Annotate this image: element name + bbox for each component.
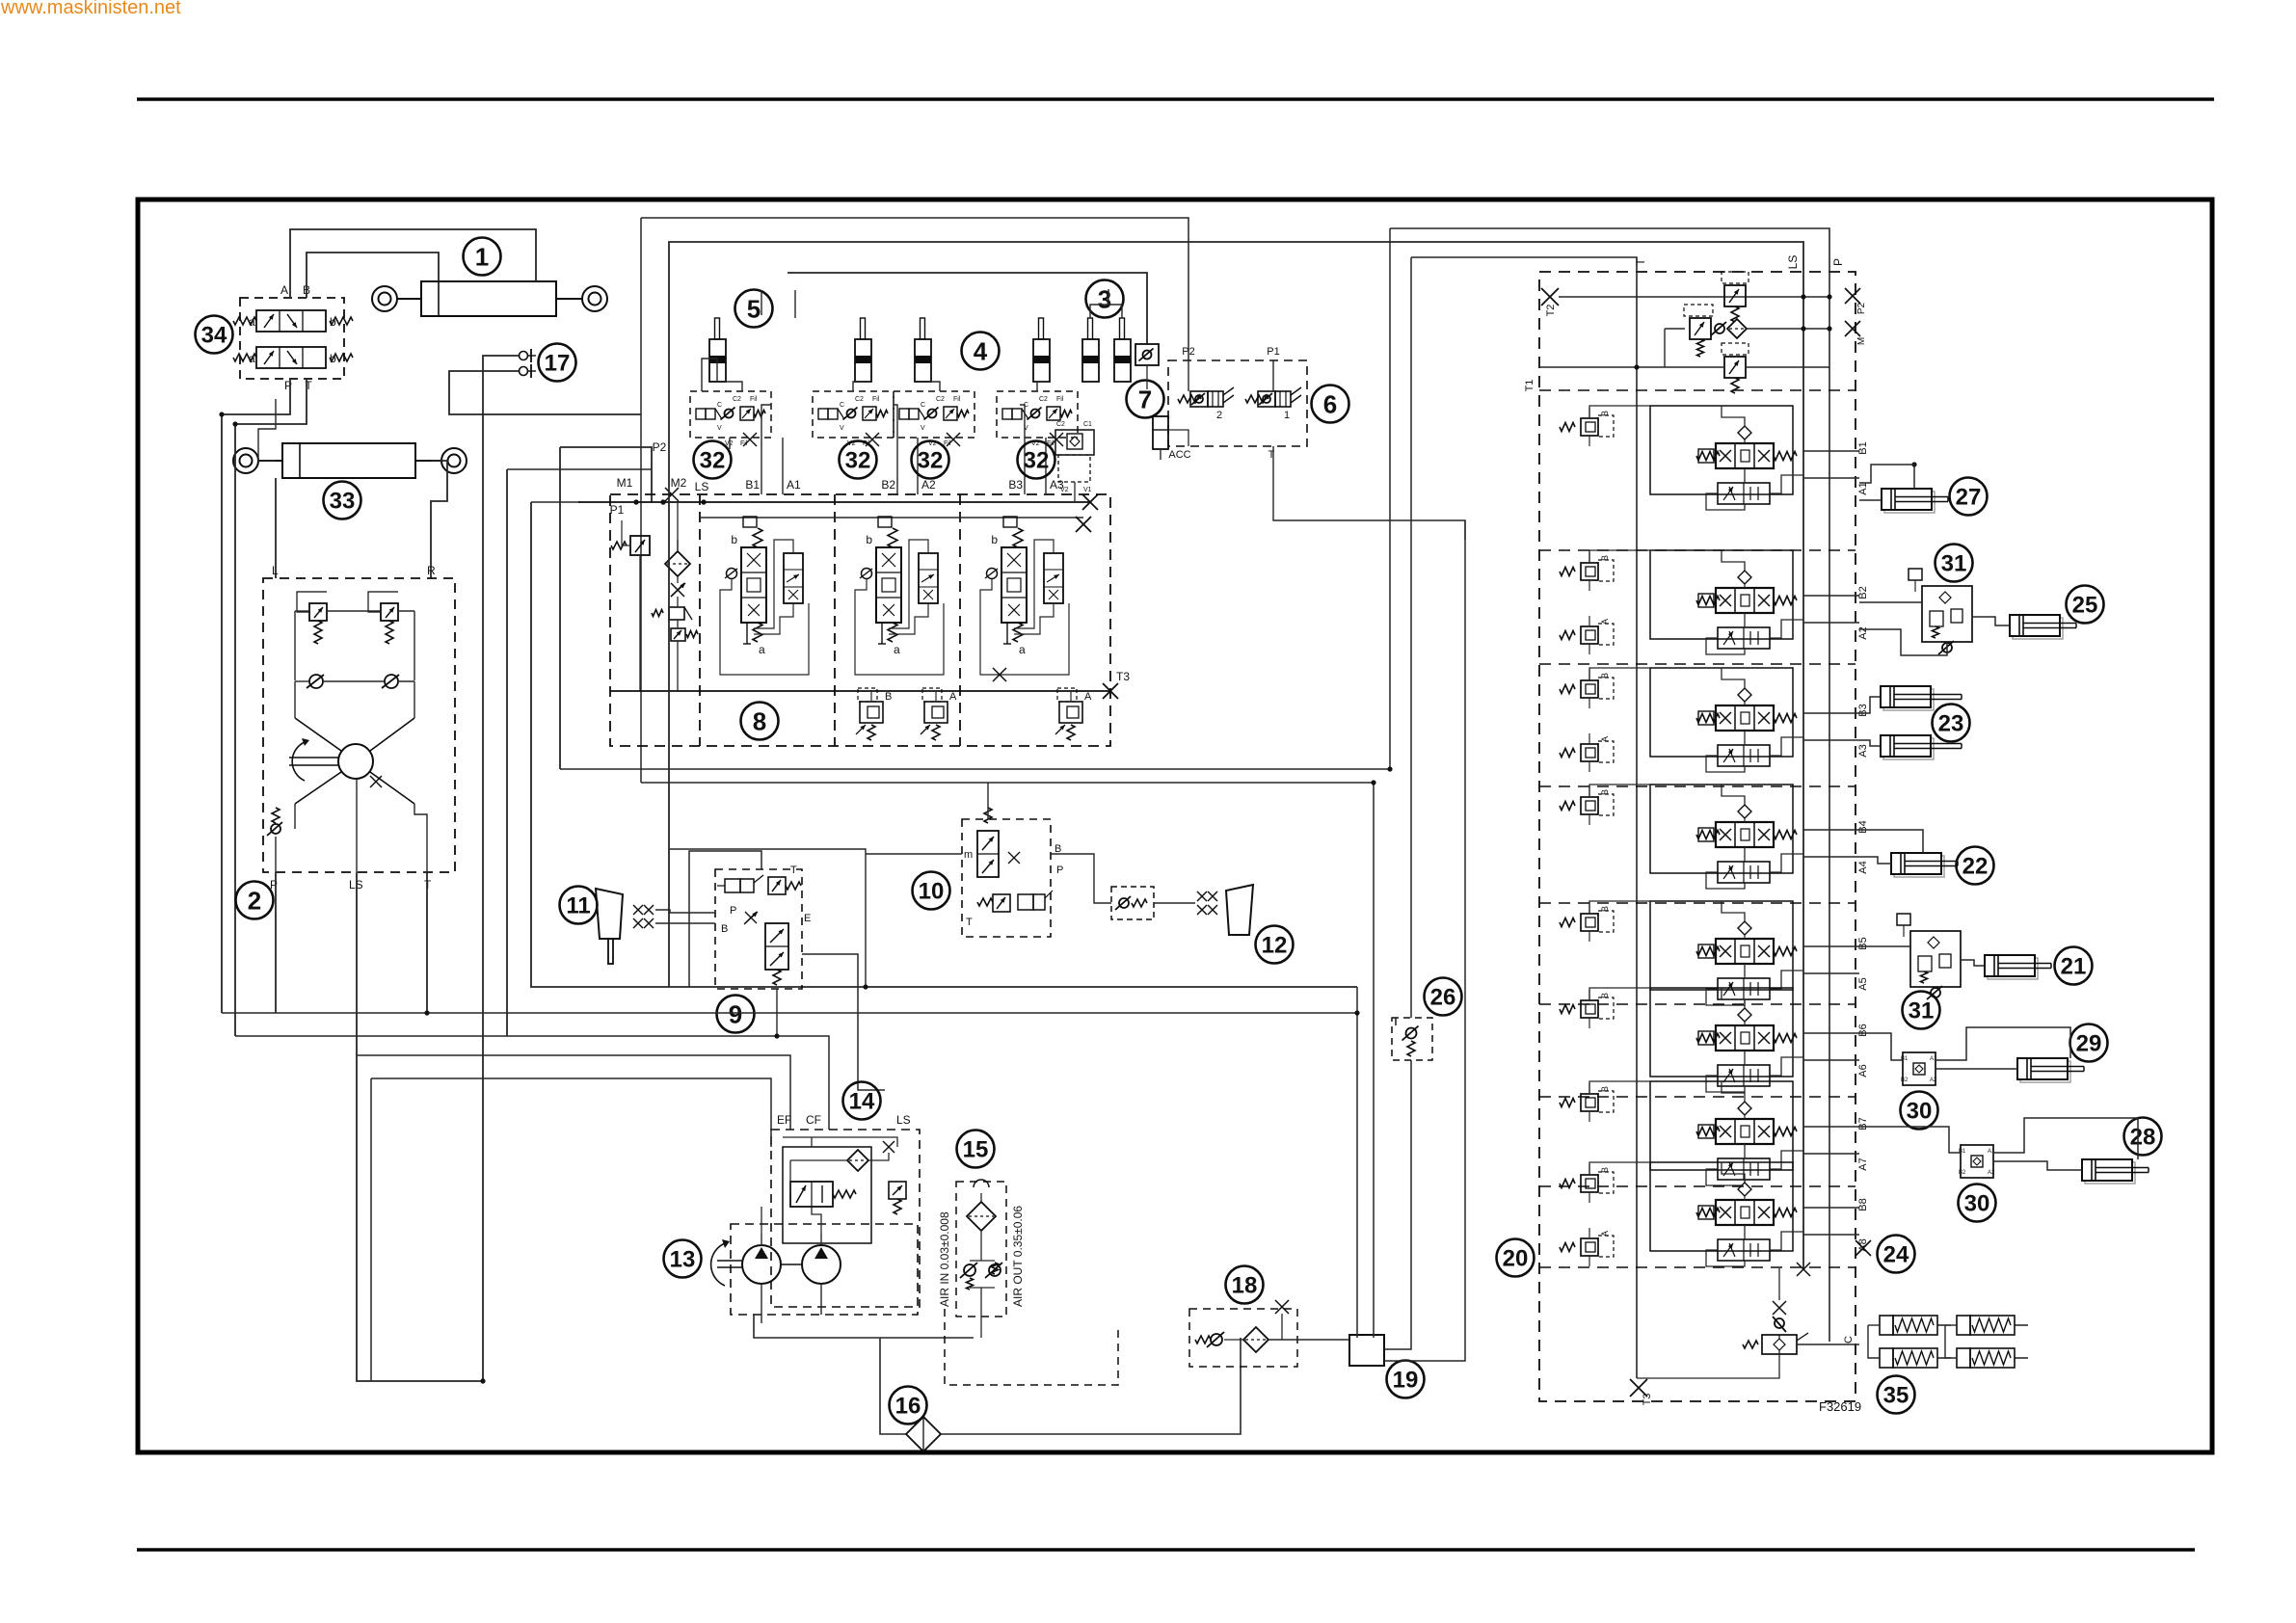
- wire: [1410, 257, 1412, 1018]
- pilot valve pair 6 block: [1168, 360, 1307, 446]
- svg-text:A: A: [1600, 736, 1610, 742]
- cylinder 28: [2085, 1162, 2135, 1184]
- relief valve module row 8: [1560, 1180, 1575, 1188]
- wire: [507, 468, 652, 470]
- circle 8: [741, 703, 779, 740]
- wire: [641, 783, 1374, 1338]
- coupler 17b: [520, 367, 528, 376]
- svg-text:LS: LS: [1786, 255, 1800, 270]
- wire: [1803, 945, 1859, 947]
- wire: [1803, 1207, 1859, 1209]
- bank separator: [1539, 549, 1855, 551]
- svg-text:A: A: [280, 283, 288, 297]
- wire: [776, 989, 778, 1036]
- wire: [275, 872, 277, 1013]
- circle 25: [2067, 586, 2104, 624]
- svg-text:A1: A1: [1988, 1149, 1995, 1155]
- wire: [1020, 405, 1025, 438]
- relief valve module row 8 b: [1560, 1243, 1575, 1252]
- svg-text:C: C: [840, 402, 844, 409]
- svg-text:B2: B2: [1959, 1170, 1966, 1176]
- relief valve module row 5: [1560, 918, 1575, 927]
- release cylinder 35d: [1957, 1348, 1970, 1368]
- svg-text:15: 15: [963, 1137, 989, 1163]
- wire: [761, 438, 762, 494]
- wire: [531, 501, 580, 503]
- block8 section2 spool: [876, 547, 901, 623]
- wire: [1589, 406, 1650, 418]
- reducing valve 10 block: [962, 819, 1051, 937]
- tank boundary: [945, 1309, 1118, 1385]
- svg-text:LS: LS: [896, 1113, 911, 1127]
- wire: [802, 954, 885, 1090]
- wire: [531, 502, 1357, 987]
- bank section module B3/A3: [1650, 668, 1793, 757]
- svg-text:A2: A2: [1988, 1170, 1995, 1176]
- svg-text:b: b: [866, 533, 872, 546]
- wire: [700, 517, 1083, 519]
- svg-text:35: 35: [1883, 1383, 1909, 1409]
- circle 10: [913, 872, 950, 910]
- joystick 11: [596, 889, 623, 939]
- wire: [896, 438, 898, 494]
- circle 26: [1425, 978, 1462, 1016]
- bank separator: [1539, 1266, 1855, 1268]
- circle 3: [1086, 280, 1124, 318]
- wire: [1168, 430, 1188, 446]
- svg-text:P2: P2: [653, 440, 667, 454]
- circle 32 d: [1018, 441, 1055, 479]
- circle 23: [1933, 705, 1970, 742]
- circle 24: [1878, 1236, 1915, 1273]
- relief valve module row 3 b: [1560, 749, 1575, 758]
- svg-text:14: 14: [849, 1089, 875, 1115]
- relief valve module row 1: [1560, 423, 1575, 432]
- wire: [1993, 1161, 2082, 1170]
- svg-text:B: B: [1600, 411, 1610, 416]
- svg-text:A7: A7: [1857, 1157, 1869, 1170]
- svg-text:1: 1: [1284, 410, 1290, 421]
- svg-text:30: 30: [1907, 1099, 1933, 1125]
- svg-text:3: 3: [1098, 284, 1111, 313]
- svg-text:A2: A2: [921, 478, 936, 492]
- wire: [1384, 1060, 1411, 1349]
- relief valve module row 2 b: [1560, 631, 1575, 640]
- svg-text:V2: V2: [1060, 487, 1069, 493]
- joystick 11 ports: [633, 905, 643, 915]
- svg-text:B2: B2: [1901, 1078, 1909, 1083]
- svg-text:B1: B1: [1959, 1149, 1966, 1155]
- wire: [794, 290, 796, 318]
- relief valve module row 6: [1560, 1005, 1575, 1014]
- circle 14: [843, 1082, 881, 1120]
- manifold 19: [1349, 1335, 1384, 1366]
- wire: [1803, 1032, 1859, 1034]
- svg-text:A3: A3: [1857, 744, 1869, 757]
- svg-text:B2: B2: [1857, 586, 1869, 599]
- wire: [1859, 1033, 1903, 1060]
- C2C1 block: [1055, 430, 1094, 455]
- circle 1: [464, 238, 501, 276]
- circle 32 a: [694, 441, 732, 479]
- cylinder 27: [1884, 492, 1935, 513]
- wire: [1074, 482, 1076, 502]
- svg-text:B2: B2: [881, 478, 895, 492]
- wire: [290, 229, 536, 298]
- breather filter 15 block: [956, 1182, 1006, 1317]
- cylinder 33: [282, 443, 415, 478]
- check valve block 12: [1111, 887, 1154, 919]
- wire: [1803, 712, 1859, 714]
- svg-text:32: 32: [700, 448, 726, 474]
- svg-text:13: 13: [670, 1247, 696, 1273]
- wire: [1356, 987, 1358, 1338]
- svg-text:ACC: ACC: [1168, 449, 1190, 461]
- valve 34 dual solenoid block: [240, 298, 344, 379]
- svg-text:25: 25: [2072, 593, 2098, 619]
- svg-text:27: 27: [1956, 485, 1982, 511]
- wire P rail: [1390, 228, 1829, 1342]
- circle 34: [196, 316, 233, 354]
- wire: [1859, 601, 1922, 603]
- wire: [1154, 902, 1195, 904]
- svg-text:F32619: F32619: [1819, 1399, 1861, 1414]
- bank section module B4/A4: [1650, 785, 1793, 873]
- svg-text:B3: B3: [1008, 478, 1023, 492]
- valve 31a: [1922, 586, 1972, 642]
- wire: [560, 768, 1390, 770]
- wire: [1859, 697, 1881, 713]
- cylinder 25: [2013, 618, 2063, 639]
- relief valve port A3: [1059, 702, 1082, 723]
- svg-text:7: 7: [1138, 385, 1152, 413]
- svg-text:M2: M2: [671, 476, 687, 490]
- wire: [258, 399, 276, 461]
- wire: [1589, 1162, 1650, 1175]
- lock module 32 d: [997, 391, 1078, 438]
- wire: [669, 849, 866, 987]
- circle 33: [324, 482, 361, 519]
- circle 31a: [1936, 545, 1973, 582]
- svg-text:T: T: [966, 917, 973, 928]
- wire: [222, 379, 290, 1013]
- svg-text:T1: T1: [1524, 380, 1535, 392]
- cylinder 21: [1988, 958, 2038, 979]
- main border: [138, 200, 2212, 1452]
- svg-text:C2: C2: [1056, 421, 1065, 428]
- wire: [725, 382, 742, 391]
- tandem pump 13 block: [731, 1224, 918, 1315]
- joystick 12: [1226, 885, 1253, 935]
- svg-text:2: 2: [1216, 410, 1222, 421]
- svg-text:C: C: [921, 402, 925, 409]
- svg-text:B1: B1: [1857, 441, 1869, 454]
- wire: [1993, 1118, 2138, 1159]
- block8 section3 spool: [1001, 547, 1027, 623]
- svg-text:V: V: [840, 425, 844, 432]
- svg-text:B: B: [1600, 993, 1610, 998]
- accumulator ACC: [1153, 416, 1168, 449]
- svg-text:EF: EF: [777, 1113, 791, 1127]
- junction dots: [660, 499, 665, 504]
- svg-text:C: C: [1843, 1336, 1855, 1344]
- wire: [689, 851, 761, 987]
- wire suction line: [880, 1338, 906, 1434]
- svg-text:31: 31: [1941, 551, 1967, 577]
- wire: [1961, 960, 1985, 966]
- svg-text:Fil: Fil: [953, 396, 961, 403]
- wire: [761, 405, 771, 438]
- wire: [1024, 438, 1026, 494]
- svg-text:1: 1: [475, 242, 489, 271]
- wire: [1859, 499, 1882, 501]
- svg-text:A1: A1: [787, 478, 801, 492]
- wire: [1972, 617, 2010, 625]
- svg-text:V: V: [717, 425, 722, 432]
- cylinder 23a: [1883, 689, 1934, 710]
- circle 27: [1950, 478, 1988, 516]
- wire: [1389, 228, 1391, 769]
- svg-text:M: M: [1856, 337, 1867, 345]
- relief valve module row 7: [1560, 1099, 1575, 1107]
- svg-text:B4: B4: [1857, 820, 1869, 833]
- svg-text:B: B: [1600, 789, 1610, 795]
- svg-text:V1: V1: [1083, 487, 1092, 493]
- wire: [483, 356, 519, 1381]
- bank separator: [1539, 663, 1855, 665]
- svg-text:P: P: [730, 905, 736, 917]
- wire: [222, 1012, 1357, 1014]
- wire: [1859, 830, 1923, 853]
- relief valve module row 4: [1560, 802, 1575, 811]
- wire: [884, 1090, 886, 1182]
- wire: [1589, 988, 1650, 1000]
- cylinder 29: [2020, 1061, 2070, 1082]
- circle 32 c: [912, 441, 949, 479]
- svg-text:A: A: [1600, 619, 1610, 625]
- svg-text:P: P: [1056, 865, 1063, 876]
- svg-text:9: 9: [729, 999, 742, 1028]
- release cylinder 35b: [1880, 1348, 1893, 1368]
- svg-text:A1: A1: [1930, 1056, 1937, 1062]
- svg-text:P2: P2: [1856, 302, 1867, 314]
- circle 21: [2055, 947, 2093, 985]
- wire: [655, 922, 715, 924]
- svg-text:a: a: [249, 315, 255, 329]
- wire: [1859, 945, 1910, 947]
- circle 28: [2124, 1118, 2162, 1156]
- svg-text:C1: C1: [1083, 421, 1092, 428]
- pressure control 9 block: [715, 869, 802, 989]
- svg-text:E: E: [804, 913, 811, 924]
- block8 inlet section internals: [630, 536, 650, 555]
- svg-text:2: 2: [248, 886, 261, 915]
- svg-text:23: 23: [1938, 711, 1964, 737]
- wire: [1589, 901, 1650, 914]
- wire P1 rail: [578, 501, 1090, 503]
- circle 7: [1127, 381, 1164, 418]
- check block 30a: [1903, 1052, 1936, 1085]
- svg-text:19: 19: [1393, 1368, 1419, 1394]
- svg-text:34: 34: [201, 323, 227, 349]
- wire: [357, 1055, 790, 1130]
- cylinder 3a: [1088, 318, 1093, 339]
- wire: [1859, 857, 1891, 864]
- circle 6: [1312, 386, 1349, 423]
- wire: [426, 872, 428, 1013]
- wire: [761, 290, 762, 315]
- svg-text:CF: CF: [806, 1113, 821, 1127]
- circle 18: [1226, 1266, 1264, 1304]
- svg-text:B6: B6: [1857, 1024, 1869, 1036]
- svg-text:20: 20: [1503, 1246, 1529, 1272]
- wire: [449, 371, 641, 414]
- port cross 24: [1855, 1240, 1871, 1256]
- relief valve module row 2: [1560, 568, 1575, 576]
- svg-text:A4: A4: [1857, 861, 1869, 873]
- svg-text:18: 18: [1232, 1273, 1258, 1299]
- svg-text:11: 11: [566, 893, 590, 919]
- circle 30a: [1901, 1092, 1938, 1130]
- wire: [370, 1078, 372, 1381]
- svg-text:A1: A1: [1857, 482, 1869, 494]
- svg-text:B1: B1: [1901, 1056, 1909, 1062]
- bank separator: [1539, 1003, 1855, 1005]
- wire: [1589, 785, 1650, 797]
- svg-text:a: a: [894, 643, 900, 656]
- circle 15: [957, 1131, 995, 1168]
- wire: [1936, 1027, 2070, 1060]
- circle 17: [539, 344, 576, 382]
- wire: [1859, 465, 1914, 489]
- check filter 18 block: [1189, 1309, 1297, 1367]
- wire: [761, 1207, 762, 1234]
- svg-text:B7: B7: [1857, 1117, 1869, 1130]
- wire: [559, 447, 561, 769]
- svg-text:C: C: [717, 402, 722, 409]
- check valve 26: [1395, 1018, 1397, 1025]
- svg-text:www.maskinisten.net: www.maskinisten.net: [0, 0, 181, 18]
- svg-text:16: 16: [895, 1394, 921, 1420]
- wire: [1868, 1325, 1880, 1358]
- svg-text:21: 21: [2061, 954, 2087, 980]
- wire: [506, 469, 508, 1036]
- svg-text:6: 6: [1323, 389, 1337, 418]
- check block 30b: [1961, 1145, 1993, 1178]
- valve 31b: [1910, 931, 1961, 987]
- svg-text:B: B: [1600, 673, 1610, 678]
- lock module 32 a: [690, 391, 771, 438]
- relief valve module row 3: [1560, 685, 1575, 694]
- wire T3 rail: [610, 690, 1110, 692]
- cylinder 4a: [921, 318, 925, 339]
- svg-text:LS: LS: [695, 480, 709, 493]
- wire: [1273, 446, 1465, 540]
- svg-text:M1: M1: [617, 476, 633, 490]
- svg-text:A8: A8: [1857, 1238, 1869, 1251]
- svg-text:T3: T3: [1642, 1394, 1653, 1406]
- cylinder 5a: [715, 318, 720, 339]
- svg-text:10: 10: [919, 879, 945, 905]
- cylinder 22: [1894, 856, 1944, 877]
- svg-text:T3: T3: [1116, 670, 1130, 683]
- circle 20: [1497, 1239, 1535, 1277]
- cylinder 1: [421, 281, 556, 316]
- svg-text:a: a: [759, 643, 765, 656]
- svg-text:B: B: [1600, 1086, 1610, 1092]
- svg-text:V: V: [921, 425, 925, 432]
- relief valve port B2: [860, 702, 883, 723]
- svg-text:31: 31: [1909, 998, 1935, 1024]
- circle 4: [962, 333, 1000, 370]
- wire: [641, 218, 1188, 360]
- circle 5: [735, 290, 773, 328]
- svg-text:Fil: Fil: [1056, 396, 1064, 403]
- wire: [729, 438, 731, 449]
- svg-text:B1: B1: [745, 478, 760, 492]
- wire: [1803, 595, 1859, 597]
- wire: [307, 253, 439, 298]
- wire: [655, 910, 715, 913]
- svg-text:5: 5: [747, 294, 761, 323]
- wire: [894, 405, 897, 438]
- circle 19: [1387, 1361, 1425, 1398]
- lock module 32 b: [813, 391, 894, 438]
- bank section module B2/A2: [1650, 550, 1793, 639]
- circle 13: [664, 1240, 702, 1278]
- svg-text:m: m: [964, 849, 973, 861]
- cylinder 3b: [1120, 318, 1125, 339]
- svg-text:R: R: [427, 564, 436, 577]
- circle 16: [890, 1387, 927, 1424]
- svg-text:24: 24: [1883, 1242, 1909, 1268]
- wire: [669, 242, 1803, 1269]
- svg-text:B: B: [1600, 555, 1610, 561]
- wire: [1589, 668, 1650, 680]
- svg-text:AIR OUT 0.35±0.06: AIR OUT 0.35±0.06: [1011, 1206, 1025, 1307]
- wire: [275, 478, 277, 578]
- wire: [1108, 289, 1109, 305]
- wire: [1803, 1126, 1859, 1128]
- svg-text:b: b: [731, 533, 737, 546]
- svg-text:A: A: [1600, 1231, 1610, 1237]
- svg-text:B: B: [885, 691, 892, 703]
- svg-text:32: 32: [1024, 448, 1050, 474]
- wire: [866, 853, 962, 855]
- wire: [1859, 1127, 1961, 1153]
- circle 35: [1878, 1376, 1915, 1414]
- port cross LS end: [1797, 1263, 1810, 1276]
- circle 9: [717, 996, 755, 1033]
- wire: [640, 218, 642, 783]
- junction dots global: [660, 499, 665, 504]
- circle 30b: [1959, 1184, 1996, 1222]
- svg-text:P1: P1: [610, 503, 625, 517]
- wire: [1051, 854, 1111, 903]
- svg-text:26: 26: [1430, 985, 1456, 1011]
- bank section module B7/A7: [1650, 1081, 1793, 1170]
- circle 31b: [1903, 992, 1940, 1029]
- svg-text:a: a: [1019, 643, 1026, 656]
- top rule: [137, 97, 2214, 101]
- release cylinder 35a: [1880, 1316, 1893, 1335]
- svg-text:a: a: [249, 352, 255, 365]
- svg-text:30: 30: [1964, 1191, 1990, 1217]
- bank section module B8/A8: [1650, 1162, 1793, 1251]
- wire: [1090, 305, 1122, 318]
- coupler 17a: [520, 352, 528, 360]
- wire: [812, 1207, 821, 1234]
